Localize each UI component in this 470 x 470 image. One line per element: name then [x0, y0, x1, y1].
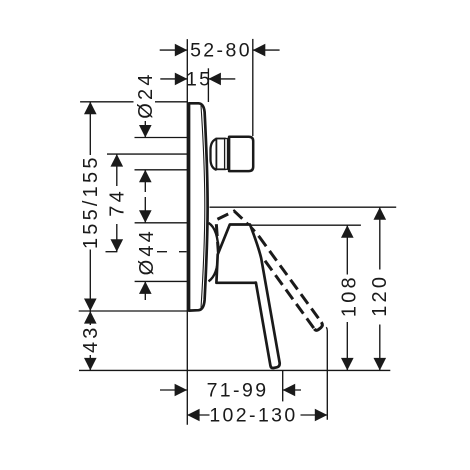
arrow 43 top [84, 311, 97, 324]
arrow O24 lower (outside, pointing up) [139, 170, 152, 183]
knob collar (tapered base) [211, 139, 217, 170]
arrow 71-99 right [283, 384, 296, 397]
arrow 102-130 right [315, 409, 328, 422]
wire dim O24/O44 dimension line x=145.3 [144, 121, 146, 137]
wire knob top extension line y=137.4 [135, 137, 188, 139]
arrow 15 right [208, 73, 221, 86]
arrow 102-130 left [187, 409, 200, 422]
arrow O24 upper (outside, pointing down) [139, 125, 152, 138]
svg-text:108: 108 [338, 274, 360, 317]
wire dashed-lever-tip extension line x=327.3 [326, 327, 327, 420]
escutcheon cone of lever (O44) [209, 223, 219, 282]
arrow O44 lower (outside, pointing up) [139, 281, 152, 294]
arrow 74 top [111, 154, 124, 167]
svg-text:102-130: 102-130 [209, 405, 297, 427]
svg-text:155/155: 155/155 [80, 154, 102, 249]
wire solid-lever-tip extension line x=282.7 [282, 370, 284, 401]
wall plate (escutcheon) [189, 103, 208, 310]
svg-text:43: 43 [80, 324, 102, 353]
arrow 74 bottom [111, 239, 124, 252]
wire wall extension line x=187.3 [186, 39, 188, 425]
knob body (O24) [229, 137, 253, 171]
svg-text:120: 120 [369, 274, 391, 317]
knob ring step [225, 139, 228, 170]
arrow 43 bottom [84, 358, 97, 371]
wire dim 102-130 dimension line [187, 414, 209, 416]
wire knob bottom extension line y=169.6 [135, 169, 188, 171]
wire 108 top extension line y=225.2 [252, 224, 361, 226]
arrow 155/155 top [84, 102, 97, 115]
arrow 52-80 left [175, 44, 188, 57]
wire dim 52-80 leader lines [160, 49, 188, 51]
arrow 52-80 right [253, 44, 265, 57]
wire bottom reference line y=370.4 [79, 369, 390, 371]
svg-text:52-80: 52-80 [190, 40, 252, 62]
lever handle solid (closed position) [216, 225, 279, 369]
arrow 15 left [175, 73, 188, 86]
wire handle-bottom extension line y=310.9 [79, 310, 188, 312]
wire dim 15 leader lines [160, 78, 187, 80]
wire knob axis centerline y=154 [107, 153, 188, 155]
wall plate inner face line [201, 106, 205, 309]
svg-text:71-99: 71-99 [207, 380, 269, 402]
svg-text:15: 15 [186, 68, 213, 90]
wire knob-face extension line x=252.8 [252, 39, 254, 136]
arrow 108 bottom [341, 358, 354, 371]
wire dim 155/155 dimension line x=90.3 [89, 102, 91, 155]
arrow 120 bottom [374, 358, 387, 371]
wire lever collar top extension line y=222.7 [135, 222, 187, 224]
wire lever axis centerline y=251.7 [106, 251, 118, 253]
wire dim 120 dimension line x=379.8 [379, 207, 381, 269]
lever dashed open position (rotated about cartridge axis) [204, 198, 324, 355]
svg-text:74: 74 [107, 188, 129, 217]
arrow 120 top [374, 207, 387, 220]
arrow O44 upper (outside, pointing down) [139, 210, 152, 223]
wire lever collar bottom extension line y=281.3 [135, 280, 187, 282]
wire plate-front extension line x=208.4 [207, 68, 209, 102]
wire dim 71-99 leader lines [160, 389, 187, 391]
svg-text:Ø24: Ø24 [135, 71, 157, 118]
wire dim 74 dimension line x=116.8 [116, 154, 118, 186]
arrow 155/155 bottom [84, 299, 97, 312]
wire 120 top extension line y=207.2 [210, 206, 397, 208]
arrow 71-99 left [175, 384, 188, 397]
knob stem cylinder [216, 139, 225, 170]
wire plate-top extension line y=101.8 [80, 101, 133, 103]
svg-text:Ø44: Ø44 [136, 228, 158, 275]
wire dim 108 dimension line x=347.3 [346, 225, 348, 274]
arrow 108 top [341, 225, 354, 238]
